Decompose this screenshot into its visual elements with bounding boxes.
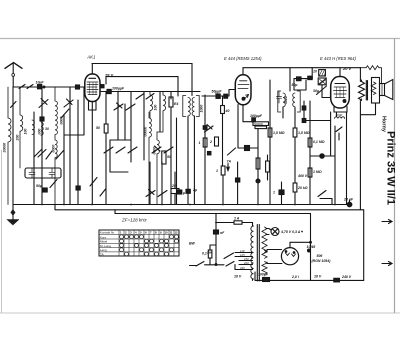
label R11: [297, 186, 308, 190]
speaker cone: [385, 80, 393, 100]
svg-text:AK1: AK1: [86, 55, 96, 60]
label C5: [36, 184, 42, 188]
trimmer C13: [146, 190, 155, 197]
label ZF: [121, 218, 147, 223]
trimmer arrow C20b: [317, 86, 327, 95]
capacitor C17: [245, 146, 250, 151]
capacitor C16: [216, 94, 220, 98]
grid coil L7: [335, 117, 345, 119]
svg-text:50µµF: 50µµF: [212, 90, 223, 94]
label R2: [96, 126, 100, 130]
svg-text:0,1: 0,1: [202, 252, 207, 256]
output transformer T2 primary: [359, 80, 365, 101]
svg-text:1 A: 1 A: [234, 217, 240, 221]
svg-text:200: 200: [16, 135, 20, 142]
resistor R14: [308, 168, 312, 177]
wire vertical x42: [41, 87, 43, 205]
wire rect anode top: [290, 242, 311, 247]
svg-text:240: 240: [239, 266, 245, 270]
label AK1: [86, 55, 96, 60]
switch S4b: [90, 178, 97, 187]
svg-text:30µ: 30µ: [313, 89, 319, 93]
capacitor on antenna line: [76, 85, 80, 89]
wire AK1 anode loop to IF1: [92, 64, 192, 96]
wire AK1 cathode: [89, 101, 97, 205]
capacitor 50pF antenna: [38, 85, 42, 89]
trimmer C14: [158, 191, 167, 197]
switch S1b: [11, 102, 17, 108]
label C18: [273, 191, 275, 195]
label C15: [192, 188, 197, 192]
wire bus to fuse: [216, 214, 234, 223]
rectifier tube 506: [281, 248, 298, 265]
label 30u: [313, 89, 319, 93]
coil L3d: [55, 135, 57, 205]
switch slash below box: [50, 180, 57, 188]
trimmer C9: [114, 103, 123, 110]
wire transformer bottom: [235, 265, 253, 281]
coil L3c: [41, 122, 43, 135]
scan top edge: [0, 38, 400, 40]
switch S4: [61, 109, 69, 118]
resistor R10: [293, 128, 297, 137]
coil L3: [32, 120, 34, 134]
label R12: [313, 70, 317, 74]
T1 HV secondary zigzag: [262, 227, 267, 253]
trimmer C6: [64, 99, 73, 107]
svg-text:000: 000: [38, 129, 42, 135]
label R9: [273, 131, 285, 135]
wire T2 vertical: [359, 68, 361, 82]
wire IF1 secondary down: [188, 116, 194, 205]
svg-text:TA: TA: [100, 253, 104, 257]
cap plates IF2: [277, 91, 282, 103]
wire E443H cathode legs: [337, 112, 347, 205]
wire lamp: [266, 229, 271, 235]
svg-text:12: 12: [175, 231, 179, 235]
wire vertical x78: [77, 100, 79, 205]
wire speaker return: [360, 103, 375, 115]
wire x270 vertical: [268, 80, 271, 205]
capacitor C25: [258, 273, 270, 282]
brand text Prinz 35 W II/1: [385, 131, 397, 205]
scan bottom edge: [0, 312, 400, 314]
svg-text:50µ: 50µ: [36, 184, 42, 188]
label T-IF1: [200, 105, 204, 113]
hum winding: [360, 66, 381, 84]
wire antenna to AK1 grid: [13, 86, 84, 88]
coil L4: [150, 92, 153, 119]
wire x106: [105, 92, 107, 205]
label R14: [313, 170, 322, 174]
svg-text:100: 100: [154, 105, 158, 111]
trimmer C-osc: [205, 125, 214, 133]
wire antenna vertical: [12, 87, 14, 205]
label R-osc: [167, 155, 171, 159]
scan right edge: [394, 39, 396, 314]
wire R15: [210, 245, 216, 265]
svg-text:1,5 MΩ: 1,5 MΩ: [273, 131, 285, 135]
label L3c: [45, 127, 49, 131]
wire vertical x64: [63, 115, 65, 205]
speaker field coil box: [372, 78, 380, 104]
IF transformer T-IF2: [278, 91, 300, 112]
switch S6: [146, 94, 154, 100]
resistor R3: [169, 97, 173, 107]
label L6a: [144, 127, 148, 137]
label R13: [313, 140, 325, 144]
label lamp: [280, 230, 301, 234]
resistor R5: [224, 94, 228, 98]
svg-text:2µ: 2µ: [192, 188, 197, 192]
switch box S2: [25, 168, 61, 178]
svg-text:BW: BW: [189, 242, 196, 246]
output transformer core: [366, 81, 367, 101]
coil L6b: [157, 132, 159, 205]
tube E443H: [331, 68, 350, 108]
label volume: [254, 122, 264, 126]
wire AK1 grid down: [64, 87, 84, 135]
svg-text:E4: E4: [174, 102, 178, 106]
svg-text:11: 11: [170, 231, 173, 235]
T1 rect heater winding: [262, 251, 267, 259]
coil L5: [157, 92, 166, 133]
wire C23 stub: [349, 200, 351, 202]
label 7A: [227, 160, 232, 164]
right vertical x320: [310, 214, 312, 281]
label R3: [174, 102, 178, 106]
tube E444: [235, 68, 251, 105]
label BW: [189, 242, 196, 246]
svg-text:400 V: 400 V: [297, 174, 308, 178]
svg-text:100µF: 100µF: [258, 273, 269, 277]
label R4: [171, 184, 176, 188]
wire C24: [215, 223, 217, 265]
wire mains to taps: [205, 264, 225, 266]
label L3b: [60, 117, 64, 125]
label E443H: [320, 56, 356, 61]
svg-text:Prinz 35 W II/1: Prinz 35 W II/1: [385, 131, 397, 205]
wire x335 vertical: [334, 126, 336, 205]
svg-text:220: 220: [243, 261, 249, 265]
wire x176: [176, 118, 178, 205]
capacitor C19b: [308, 76, 312, 79]
wire E444 anode loop: [243, 68, 360, 91]
wire C17: [238, 122, 258, 148]
fuse F1: [234, 217, 242, 225]
svg-text:100: 100: [24, 129, 28, 135]
label L4: [154, 105, 158, 111]
trimmer C4: [38, 150, 46, 158]
trimmer C2: [39, 99, 48, 108]
wire x295 vertical: [294, 109, 296, 205]
primary taps: [224, 253, 253, 270]
svg-text:1: 1: [199, 141, 201, 145]
scan left edge: [1, 150, 3, 313]
label L1: [3, 143, 7, 154]
table row labels: [100, 231, 115, 257]
wire T2 bottom down: [359, 101, 361, 210]
label L3e: [38, 129, 42, 135]
tube E443H base: [334, 107, 347, 113]
label C23: [343, 198, 354, 202]
volume pot box: [253, 122, 269, 126]
trimmer C10: [126, 104, 135, 110]
label R5: [225, 109, 230, 113]
label E444: [224, 56, 262, 61]
svg-text:E 443 H (RES 964): E 443 H (RES 964): [320, 56, 356, 61]
svg-text:3000: 3000: [284, 96, 288, 104]
svg-text:2w: 2w: [206, 251, 212, 255]
label 20V: [342, 66, 352, 71]
resistor R5b: [215, 137, 219, 146]
resistor R7: [221, 166, 225, 175]
ground bus: [13, 204, 352, 206]
svg-text:2: 2: [209, 140, 212, 144]
svg-text:1: 1: [273, 191, 275, 195]
svg-text:(RGN 1054): (RGN 1054): [312, 259, 332, 263]
svg-text:506: 506: [317, 254, 323, 258]
junction cap at AK1: [101, 85, 104, 88]
label 2.01: [291, 275, 300, 279]
label 2A: [206, 251, 212, 255]
resistor R9: [268, 128, 272, 137]
T1 core: [257, 225, 259, 282]
label L7: [336, 113, 343, 117]
capacitor C17b: [236, 178, 240, 182]
pot arrow P2: [336, 127, 342, 140]
arrow pickup 2: [382, 262, 392, 266]
coil L3b: [55, 87, 57, 135]
resistor R2 50k: [104, 124, 108, 133]
resistor R11: [293, 183, 297, 192]
tube AK1: [85, 64, 100, 102]
wire x310: [309, 101, 311, 205]
label 18V: [234, 275, 242, 279]
resistor R6: [203, 138, 207, 147]
switch S1a on antenna lead: [19, 85, 33, 89]
wire mixer bus y91.5: [111, 91, 200, 93]
node mains: [215, 264, 217, 266]
capacitor C24: [214, 230, 226, 235]
svg-text:25 µF: 25 µF: [343, 198, 354, 202]
svg-text:20 V: 20 V: [342, 66, 352, 71]
arrow pickup 1: [382, 220, 392, 224]
svg-text:10: 10: [165, 231, 169, 235]
mains switch S8: [190, 262, 205, 267]
svg-text:30: 30: [45, 127, 49, 131]
svg-text:Kontakt Nr.: Kontakt Nr.: [100, 231, 115, 235]
bottom bus: [255, 272, 364, 280]
label C19: [292, 83, 298, 87]
label R5b: [209, 140, 212, 144]
label R6: [199, 141, 201, 145]
resistor R12 hatched: [319, 70, 326, 76]
svg-text:4,75 V 0,3 A: 4,75 V 0,3 A: [280, 230, 301, 234]
capacitor 100pF at AK1: [107, 89, 111, 93]
label 240V: [341, 275, 352, 279]
coil L2: [20, 87, 23, 168]
capacitor C22: [320, 154, 324, 158]
label C17c: [182, 114, 263, 195]
IF transformer T-IF1: [183, 96, 199, 117]
wire fuse to transformer: [242, 223, 253, 227]
coil L6a: [149, 112, 151, 205]
svg-text:100µµF: 100µµF: [112, 87, 125, 91]
label 10/45: [307, 245, 316, 249]
capacitor C19: [297, 77, 302, 81]
switch slash mid: [228, 148, 236, 155]
capacitor C8: [76, 186, 80, 190]
switch S3b: [34, 149, 42, 157]
wire C17b: [237, 162, 239, 205]
svg-text:78 V: 78 V: [105, 73, 114, 78]
label R7: [216, 169, 218, 173]
label L6b: [153, 147, 157, 155]
node dot: [43, 86, 45, 88]
capacitor C3: [40, 117, 44, 121]
wire E444 grid feed: [202, 90, 235, 97]
trimmer block C20: [318, 78, 326, 85]
svg-text:00000: 00000: [144, 127, 148, 137]
wire vertical x34: [33, 112, 35, 205]
pot arrow P1: [227, 164, 230, 171]
wire R3: [170, 92, 172, 205]
svg-text:50: 50: [167, 155, 171, 159]
caps in box S2: [29, 168, 55, 178]
resistor R13: [308, 138, 312, 147]
label L3: [24, 129, 28, 135]
wire verticals row3: [150, 162, 188, 205]
label 506: [312, 254, 332, 263]
resistor R-osc: [162, 151, 166, 164]
switch S3c: [46, 151, 52, 159]
svg-text:10: 10: [313, 70, 317, 74]
power box right vertical: [363, 210, 365, 281]
table header digits: [120, 231, 178, 235]
label 400V: [297, 174, 308, 178]
wire vertical x70: [69, 87, 71, 205]
T1 heater winding 2: [262, 262, 267, 275]
svg-text:7A: 7A: [227, 160, 232, 164]
junction dots: [41, 204, 336, 233]
pot arrow P3: [318, 191, 332, 205]
label T-IF2: [284, 96, 288, 104]
svg-text:100µµF: 100µµF: [250, 114, 263, 118]
wire AK1 mixer out: [100, 91, 131, 93]
svg-text:240 V: 240 V: [341, 275, 352, 279]
switch S5: [136, 94, 144, 100]
svg-text:40: 40: [225, 109, 230, 113]
brand text Horny: [381, 116, 387, 133]
switch arms mid row2: [104, 147, 137, 153]
svg-text:18 V: 18 V: [314, 275, 322, 279]
ground symbol: [12, 205, 14, 221]
wire C22: [310, 155, 335, 157]
capacitor C18: [279, 190, 284, 195]
resistor R15: [202, 250, 212, 258]
wire x205 vertical: [204, 95, 206, 205]
label 78V: [105, 73, 114, 78]
pilot lamp: [271, 228, 279, 236]
speaker field coil zigzag: [371, 82, 376, 95]
power transformer T1 primary: [251, 226, 254, 279]
coil L1: [8, 87, 11, 205]
svg-text:1 MΩ: 1 MΩ: [313, 170, 322, 174]
wire caps row: [294, 68, 312, 90]
label R10: [298, 131, 310, 135]
svg-text:1,5 MΩ: 1,5 MΩ: [298, 131, 310, 135]
trimmer C11: [152, 146, 161, 153]
svg-text:10µF: 10µF: [36, 81, 45, 85]
heater wires rectifier: [267, 250, 282, 264]
trimmer C12: [164, 147, 173, 153]
wire C18: [281, 182, 283, 205]
capacitor C5: [43, 188, 47, 192]
capacitor small: [208, 152, 211, 155]
svg-text:0,1 MΩ: 0,1 MΩ: [313, 140, 325, 144]
speaker magnet: [380, 84, 385, 96]
svg-text:µ: µ: [182, 191, 185, 195]
switch S4c: [100, 189, 106, 197]
wire x223 vertical: [222, 96, 224, 166]
table circles: [120, 235, 179, 256]
svg-text:2,0 l: 2,0 l: [291, 275, 300, 279]
label 100pF: [112, 87, 125, 91]
band switch table: [99, 230, 179, 256]
resistor R8: [256, 158, 260, 169]
svg-text:20 kΩ: 20 kΩ: [297, 186, 308, 190]
wire E444 cathode: [238, 105, 243, 149]
wire switch row2: [110, 140, 131, 172]
wire C20 drop: [322, 85, 331, 98]
wire R7 down: [222, 175, 224, 205]
resistor R4: [171, 189, 179, 194]
capacitor C15: [186, 189, 190, 193]
svg-text:E 444 (REMS 1254): E 444 (REMS 1254): [224, 56, 262, 61]
svg-text:1000: 1000: [200, 105, 204, 113]
capacitor C17c: [177, 190, 182, 194]
svg-text:20000: 20000: [3, 143, 7, 154]
switch S3: [56, 150, 64, 159]
svg-text:5000Ω: 5000Ω: [254, 122, 264, 126]
wire x258 vertical: [257, 129, 259, 205]
svg-text:ZF=128 kHz: ZF=128 kHz: [121, 218, 147, 223]
bus 2: [55, 205, 364, 210]
label C16: [212, 90, 223, 94]
label L3d: [52, 145, 56, 153]
label uF right: [314, 275, 322, 279]
bus 3: [115, 210, 311, 214]
tap labels: [239, 249, 249, 270]
antenna: [5, 63, 22, 87]
label L2: [16, 135, 20, 142]
wire 78V screen line: [106, 77, 178, 96]
svg-text:0000: 0000: [52, 145, 56, 153]
svg-text:18 V: 18 V: [234, 275, 242, 279]
wire IF2 secondary: [283, 101, 331, 156]
svg-text:1: 1: [216, 169, 218, 173]
capacitor C23 25uF: [347, 202, 352, 207]
svg-text:50: 50: [96, 126, 100, 130]
wire verticals mid: [118, 92, 160, 163]
